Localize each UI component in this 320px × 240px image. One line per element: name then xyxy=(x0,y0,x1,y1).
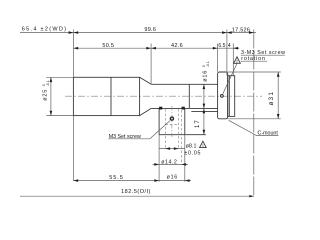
hidden line dia14.2 right xyxy=(180,110,182,164)
leader M3 xyxy=(150,121,170,139)
svg-text:ø8.1: ø8.1 xyxy=(186,143,197,149)
svg-text:55.5: 55.5 xyxy=(109,175,124,181)
dia31 ext bottom xyxy=(228,118,281,120)
extension line chamfer end xyxy=(150,44,152,84)
extension line front face bottom xyxy=(72,116,74,181)
ø16 tube top edge xyxy=(151,83,217,85)
leader rotation to flange screw xyxy=(223,64,237,94)
svg-text:2: 2 xyxy=(236,60,238,64)
arrow dia8.1 right xyxy=(174,147,179,150)
dim 42.6 line xyxy=(151,47,218,49)
dim dia16 bottom line xyxy=(159,180,191,182)
svg-text:-0.1: -0.1 xyxy=(206,61,210,67)
set screw window boss right edge xyxy=(184,108,186,134)
svg-text:4: 4 xyxy=(228,43,231,49)
svg-text:-0.1: -0.1 xyxy=(46,80,50,86)
dia14.2 left extension xyxy=(158,135,160,165)
C-mount flange ring xyxy=(218,72,228,119)
arrow 99.6 right xyxy=(222,31,227,34)
extension line thread end xyxy=(232,44,234,76)
chamfer top xyxy=(140,77,152,84)
optical axis centerline xyxy=(65,95,262,97)
thread section mark right xyxy=(182,107,185,110)
arrow 42.6 left xyxy=(151,47,156,50)
arrow dia14.2 left outside xyxy=(154,163,159,166)
dim 182.5 line xyxy=(20,195,254,197)
dia25 ext top xyxy=(46,76,73,78)
svg-text:±0.05: ±0.05 xyxy=(184,151,201,157)
extension line flange face xyxy=(217,44,219,72)
chamfer bottom xyxy=(140,108,152,115)
arrow dia25 bottom xyxy=(50,111,53,116)
thread relief groove xyxy=(228,76,230,117)
arrow 17 bottom xyxy=(203,130,206,135)
svg-text:182.5(O/I): 182.5(O/I) xyxy=(121,189,151,195)
M3 screw xyxy=(170,116,175,121)
arrow dia31 top xyxy=(277,72,280,77)
image plane line xyxy=(253,30,255,197)
dim 55.5 line xyxy=(73,180,159,182)
C-mount thread barrel xyxy=(228,76,235,117)
dia25 ext bottom xyxy=(46,115,73,117)
dim dia16 tube xyxy=(203,84,205,108)
dia16b ext right xyxy=(184,135,186,182)
barrel seam xyxy=(110,77,112,115)
leader C-mount xyxy=(229,120,257,135)
hidden hole edge right xyxy=(178,109,180,149)
svg-text:17.526: 17.526 xyxy=(232,28,250,34)
dim 65.4 line xyxy=(20,32,73,34)
arrow 42.6 right xyxy=(213,47,218,50)
arrow 65.4 right xyxy=(69,31,74,34)
arrow dia8.1 left xyxy=(165,147,170,150)
svg-text:65.4 ±2(WD): 65.4 ±2(WD) xyxy=(22,27,67,33)
tube rear lower feature line xyxy=(191,110,217,112)
triangle rev 1 xyxy=(200,141,207,147)
arrow dia16b left outside xyxy=(154,179,159,182)
arrow 182.5 right xyxy=(249,195,254,197)
arrow 17 top xyxy=(203,108,206,113)
extension line front face top xyxy=(72,30,74,78)
arrow dia31 bottom xyxy=(277,114,280,119)
boss bottom + extension xyxy=(159,134,206,136)
extension line thread face xyxy=(226,30,228,76)
svg-text:6.5: 6.5 xyxy=(218,43,225,49)
svg-text:17: 17 xyxy=(195,119,201,128)
dia31 ext top xyxy=(228,71,281,73)
text dia31 xyxy=(268,91,275,106)
arrow dia25 top xyxy=(50,77,53,82)
svg-text:ø16: ø16 xyxy=(167,174,178,180)
hidden hole bottom xyxy=(165,123,178,125)
svg-text:ø31: ø31 xyxy=(268,91,275,106)
dim 99.6 line xyxy=(73,32,227,34)
dim 17.526 line xyxy=(227,32,256,34)
dim 4 line xyxy=(227,47,239,49)
text 17 xyxy=(195,119,201,128)
dim dia14.2 line xyxy=(153,163,189,165)
set screw window boss left edge xyxy=(158,108,160,134)
arrow 17.526 left xyxy=(227,31,232,34)
arrow 99.6 left xyxy=(73,31,78,34)
dim 17 xyxy=(203,108,205,134)
arrow 55.5 left xyxy=(73,179,78,182)
hidden hole edge left xyxy=(164,109,166,149)
text dia25 xyxy=(42,80,50,101)
flange set screw xyxy=(220,94,224,98)
dia16b ext left xyxy=(158,165,160,182)
dim dia8.1 line xyxy=(159,148,184,150)
arrow 50.5 left xyxy=(73,47,78,50)
arrow dia16b right outside xyxy=(185,179,190,182)
svg-text:ø14.2: ø14.2 xyxy=(161,159,177,165)
thread section mark left xyxy=(159,107,162,110)
svg-text:99.6: 99.6 xyxy=(144,27,156,33)
svg-text:42.6: 42.6 xyxy=(171,43,183,49)
arrow dia14.2 right outside xyxy=(181,163,186,166)
arrow dia16 top xyxy=(203,84,206,89)
dim dia25 xyxy=(50,77,52,115)
triangle rev 2 xyxy=(234,57,241,63)
dim 6.5 line xyxy=(218,47,227,49)
screw centerline xyxy=(171,106,173,137)
ø16 tube bottom edge xyxy=(151,107,217,109)
lens front barrel body xyxy=(73,77,139,115)
text dia16-0.1 xyxy=(202,61,210,82)
arrow 4 right outside xyxy=(233,47,238,50)
arrow 17.526 right xyxy=(249,31,254,34)
arrow 50.5 right xyxy=(146,47,151,50)
arrow dia16 bottom xyxy=(203,104,206,109)
svg-text:ø16: ø16 xyxy=(203,70,209,82)
dim dia31 xyxy=(277,72,279,119)
svg-text:1: 1 xyxy=(202,144,204,148)
svg-text:ø25: ø25 xyxy=(43,89,49,101)
dim 50.5 line xyxy=(73,47,151,49)
svg-text:50.5: 50.5 xyxy=(102,43,114,49)
tube seam xyxy=(188,84,190,108)
